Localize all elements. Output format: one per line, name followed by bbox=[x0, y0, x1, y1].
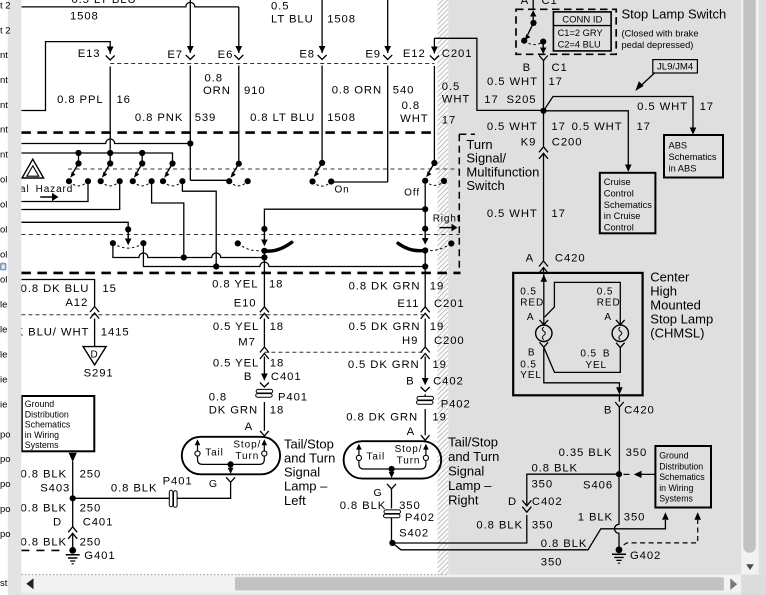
svg-text:18: 18 bbox=[270, 404, 284, 416]
cruise control box bbox=[600, 173, 656, 234]
svg-text:nt: nt bbox=[0, 125, 8, 136]
right cam dashed travel arc bbox=[428, 244, 452, 251]
grommet P402 right lamp feed bbox=[417, 396, 434, 404]
svg-text:in Wiring: in Wiring bbox=[25, 430, 59, 440]
svg-text:ol: ol bbox=[0, 200, 7, 211]
svg-text:and Turn: and Turn bbox=[284, 451, 335, 466]
arrow into cruise box bbox=[625, 165, 632, 172]
svg-text:E8: E8 bbox=[299, 49, 315, 61]
svg-text:E13: E13 bbox=[78, 48, 101, 60]
svg-text:G: G bbox=[374, 487, 383, 499]
svg-text:0.8 BLK: 0.8 BLK bbox=[541, 538, 588, 550]
wire E12 vertical bbox=[433, 38, 435, 163]
svg-text:A: A bbox=[245, 421, 253, 433]
svg-text:Lamp –: Lamp – bbox=[284, 479, 328, 494]
svg-text:250: 250 bbox=[80, 503, 102, 515]
wire Off-switch left contact down bbox=[424, 181, 426, 230]
node pole1 bus dot bbox=[75, 150, 81, 156]
wire E6 vertical bbox=[238, 7, 240, 164]
wire right lamp G to S402 bbox=[391, 489, 393, 543]
svg-text:P401: P401 bbox=[163, 475, 193, 487]
svg-text:17: 17 bbox=[551, 208, 565, 220]
wire E12 jog to S205 (0.5 WHT) bbox=[434, 38, 543, 110]
connector arrow+chevron B C401 bbox=[260, 374, 269, 388]
svg-text:Lamp –: Lamp – bbox=[448, 478, 492, 493]
svg-text:E10: E10 bbox=[234, 298, 257, 310]
switch pole4 bbox=[160, 160, 186, 185]
stop lamp switch contact dot B side bbox=[540, 39, 546, 45]
connector fork G right lamp bbox=[387, 484, 396, 489]
left cam dashed travel arc bbox=[238, 243, 263, 250]
svg-text:S406: S406 bbox=[583, 479, 613, 491]
right cam contact dot bbox=[422, 247, 428, 253]
wire right cam contact through bus2 to E11 bbox=[424, 251, 426, 436]
connector chevrons M7 at C200 bbox=[260, 347, 269, 359]
svg-text:C401: C401 bbox=[271, 371, 302, 383]
svg-text:C201: C201 bbox=[434, 298, 465, 310]
svg-text:0.8: 0.8 bbox=[205, 72, 223, 84]
right cam arrow bbox=[424, 230, 426, 239]
svg-text:540: 540 bbox=[393, 85, 415, 97]
switch pole1 bbox=[66, 160, 91, 185]
connector chevrons E6 at C201 bbox=[234, 46, 243, 60]
svg-text:Turn: Turn bbox=[235, 451, 259, 462]
svg-text:0.8 DK BLU: 0.8 DK BLU bbox=[21, 283, 90, 295]
stop lamp switch contact dot A side bbox=[521, 38, 527, 44]
svg-text:350: 350 bbox=[541, 556, 563, 568]
svg-text:0.8 YEL: 0.8 YEL bbox=[212, 279, 258, 291]
page-edge hatch strip bbox=[438, 0, 449, 575]
svg-text:t 2: t 2 bbox=[0, 1, 11, 12]
svg-text:350: 350 bbox=[532, 479, 554, 491]
svg-text:0.8 BLK: 0.8 BLK bbox=[476, 519, 523, 531]
CHMSL bottom exit arrow bbox=[616, 387, 623, 394]
CHMSL left bulb bottom chevron bbox=[540, 342, 549, 347]
svg-text:D: D bbox=[91, 350, 99, 361]
wire CHMSL feed inside box bbox=[543, 273, 545, 325]
svg-text:17: 17 bbox=[484, 94, 498, 106]
connector chevrons K9 at C200 bbox=[539, 147, 548, 159]
svg-text:po: po bbox=[0, 529, 11, 540]
connector fork A right lamp bbox=[421, 435, 430, 440]
dashed connector line C201 lower bbox=[21, 314, 425, 316]
wire left lamp G to P401 to S403 bbox=[73, 482, 231, 498]
svg-text:S205: S205 bbox=[507, 94, 537, 106]
diagram white page bbox=[21, 0, 437, 575]
grommet P401 left lamp feed bbox=[256, 389, 273, 397]
svg-text:Ground: Ground bbox=[659, 451, 688, 461]
svg-text:ie: ie bbox=[0, 375, 7, 386]
left tail/stop lamp body bbox=[182, 437, 280, 475]
svg-text:A: A bbox=[527, 312, 535, 323]
svg-text:YEL: YEL bbox=[520, 370, 542, 381]
wire bus1 bbox=[113, 243, 265, 257]
left lamp internal bus bbox=[198, 457, 265, 465]
svg-text:17: 17 bbox=[637, 121, 651, 133]
ground G401 bbox=[66, 547, 80, 564]
left cam alternate contact dot bbox=[235, 240, 241, 246]
svg-text:st: st bbox=[0, 578, 8, 589]
ground distribution box left bbox=[22, 396, 95, 451]
horizontal scrollbar right arrow bbox=[730, 578, 737, 590]
svg-text:0.5 WHT: 0.5 WHT bbox=[572, 121, 623, 133]
svg-text:539: 539 bbox=[195, 112, 217, 124]
left cam wiper thick arc bbox=[266, 242, 292, 251]
svg-text:(Closed with brake: (Closed with brake bbox=[622, 29, 699, 39]
svg-text:and Turn: and Turn bbox=[448, 449, 499, 464]
svg-text:pedal depressed): pedal depressed) bbox=[622, 40, 694, 50]
dashed switch internal line upper bbox=[68, 168, 460, 170]
CHMSL right bulb top chevron bbox=[616, 320, 625, 325]
wire pole4 right contact to bus2 bbox=[182, 181, 216, 266]
wire pole2 right contact to left edge bbox=[21, 181, 119, 209]
dashed connector line C201 top bbox=[110, 63, 434, 65]
svg-text:Schematics: Schematics bbox=[669, 152, 717, 162]
connector arrow+chevron B C402 bbox=[421, 378, 430, 392]
svg-text:Stop Lamp Switch: Stop Lamp Switch bbox=[622, 6, 727, 21]
svg-text:ABS: ABS bbox=[669, 140, 688, 150]
wire pole3 right contact to bus1 bbox=[152, 181, 184, 257]
svg-text:0.8 BLK: 0.8 BLK bbox=[111, 483, 157, 495]
svg-text:S402: S402 bbox=[399, 527, 429, 539]
wire Off branch to left cam bbox=[264, 209, 425, 230]
ground G402 bbox=[612, 546, 626, 563]
wire hazard bus lower to pole 4 bbox=[21, 153, 172, 164]
svg-text:Systems: Systems bbox=[659, 494, 693, 504]
switch E6 pole bbox=[226, 161, 251, 186]
connector fork B C1 bbox=[539, 56, 548, 61]
svg-text:0.5 WHT: 0.5 WHT bbox=[487, 76, 538, 88]
grommet P402 at S402 bbox=[384, 510, 401, 518]
stop lamp switch lever bbox=[528, 23, 534, 35]
left lamp common ground dot bbox=[228, 461, 234, 467]
stop lamp switch exit arrow bbox=[542, 42, 544, 48]
wire pole3 stub bbox=[141, 153, 143, 164]
stop lamp switch pivot dot bbox=[530, 20, 536, 26]
heavy dashed switch box top edge bbox=[21, 131, 437, 134]
node S406 splice dot bbox=[616, 471, 622, 477]
hazard direction arrow bbox=[40, 196, 52, 198]
wire S406 to C402 D to S402 bbox=[392, 474, 619, 543]
switch pole3 bbox=[130, 160, 155, 185]
wire E6-pole left contact to E7 bbox=[190, 179, 229, 182]
svg-text:B: B bbox=[528, 348, 536, 359]
left pane text fragments bbox=[0, 1, 11, 590]
left cam contact dot bbox=[261, 248, 267, 254]
svg-text:0.5: 0.5 bbox=[597, 287, 614, 298]
svg-text:0.8 ORN: 0.8 ORN bbox=[332, 85, 382, 97]
wire E9 vertical bbox=[387, 0, 389, 182]
left pane small colored icon bbox=[0, 263, 6, 271]
svg-text:Stop/: Stop/ bbox=[395, 444, 423, 455]
svg-text:po: po bbox=[0, 479, 11, 490]
wire bus2 bbox=[143, 243, 425, 266]
dashed switch internal line lower bbox=[21, 234, 459, 236]
node bus1 end junction bbox=[261, 254, 267, 260]
svg-text:0.8 BLK: 0.8 BLK bbox=[532, 462, 579, 474]
svg-text:0.35 BLK: 0.35 BLK bbox=[559, 447, 613, 459]
wire S403 down to G401 bbox=[72, 498, 74, 547]
svg-text:0.8 BLK: 0.8 BLK bbox=[21, 503, 68, 515]
svg-text:Tail: Tail bbox=[367, 452, 386, 463]
svg-text:Tail: Tail bbox=[205, 447, 224, 458]
svg-text:350: 350 bbox=[399, 500, 421, 512]
svg-text:B: B bbox=[523, 62, 531, 74]
svg-text:19: 19 bbox=[433, 359, 447, 371]
node right cam pivot bbox=[422, 226, 428, 232]
wire S205 down to K9 C200 and C420 bbox=[543, 111, 545, 273]
arrow from ground box down to S403 wire bbox=[69, 453, 77, 462]
vertical scrollbar thumb bbox=[743, 0, 755, 553]
connector chevrons E13 at C201 bbox=[106, 47, 115, 61]
svg-text:C2=4 BLU: C2=4 BLU bbox=[558, 39, 601, 49]
svg-text:E6: E6 bbox=[218, 49, 234, 61]
dashed connector line C200 lower bbox=[264, 351, 425, 353]
svg-text:1508: 1508 bbox=[70, 11, 99, 23]
right lamp common ground dot bbox=[389, 466, 395, 472]
vertical scrollbar down arrow bbox=[746, 564, 754, 570]
node hazard bus E7 junction bbox=[187, 140, 193, 146]
node bus2 end junction bbox=[422, 263, 428, 269]
svg-text:WHT: WHT bbox=[400, 113, 428, 125]
svg-text:in Wiring: in Wiring bbox=[659, 483, 693, 493]
svg-text:Signal: Signal bbox=[284, 465, 320, 480]
svg-text:nt: nt bbox=[0, 100, 8, 111]
svg-text:0.5 WHT: 0.5 WHT bbox=[487, 208, 538, 220]
svg-text:Off: Off bbox=[404, 188, 420, 199]
arrow dashed from G402 into ground box bottom bbox=[694, 512, 701, 520]
svg-text:Switch: Switch bbox=[466, 178, 504, 193]
svg-text:18: 18 bbox=[269, 279, 283, 291]
svg-text:19: 19 bbox=[430, 321, 444, 333]
svg-text:18: 18 bbox=[270, 357, 284, 369]
svg-text:B: B bbox=[406, 375, 414, 387]
connector chevrons E11 at C201 bbox=[421, 307, 430, 319]
svg-text:Hazard: Hazard bbox=[36, 184, 74, 195]
svg-text:JL9/JM4: JL9/JM4 bbox=[657, 62, 694, 73]
svg-text:ol: ol bbox=[0, 225, 7, 236]
CHMSL left bulb bbox=[536, 325, 552, 341]
svg-text:S403: S403 bbox=[40, 483, 70, 495]
svg-text:ie: ie bbox=[0, 400, 7, 411]
svg-text:LT BLU: LT BLU bbox=[271, 14, 314, 26]
connector fork G left lamp bbox=[226, 477, 235, 482]
wire S402 branch to ground distribution arrow bbox=[392, 520, 665, 550]
node left cam pivot bbox=[261, 226, 267, 232]
svg-text:D: D bbox=[508, 496, 517, 508]
svg-text:A: A bbox=[526, 252, 534, 264]
svg-text:K9: K9 bbox=[521, 137, 537, 149]
hazard warning triangle symbol bbox=[22, 159, 44, 178]
svg-text:C1: C1 bbox=[552, 62, 568, 74]
svg-text:19: 19 bbox=[430, 280, 444, 292]
right gray margin column bbox=[759, 0, 766, 595]
left lamp tail filament bbox=[195, 439, 201, 456]
svg-text:A: A bbox=[521, 0, 529, 7]
svg-text:le: le bbox=[0, 300, 7, 311]
svg-text:0.5 WHT: 0.5 WHT bbox=[637, 101, 688, 113]
node S205 splice dot bbox=[540, 108, 546, 114]
svg-text:On: On bbox=[335, 185, 350, 196]
wire E7 vertical bbox=[189, 0, 191, 180]
svg-text:ol: ol bbox=[0, 275, 7, 286]
node bus2 pole4 junction bbox=[213, 263, 219, 269]
svg-text:Distribution: Distribution bbox=[25, 409, 69, 419]
svg-text:C420: C420 bbox=[624, 404, 655, 416]
node pole3 bus dot bbox=[139, 150, 145, 156]
svg-text:(CHMSL): (CHMSL) bbox=[650, 326, 704, 341]
connector chevrons D at C401 bbox=[68, 527, 77, 539]
svg-text:P401: P401 bbox=[278, 391, 308, 403]
svg-text:E11: E11 bbox=[397, 298, 419, 310]
wire On-switch right contact to E9 bbox=[331, 181, 388, 184]
right lamp ground exit arrow bbox=[389, 469, 395, 478]
wire A12 from left edge bbox=[21, 280, 94, 347]
connector chevrons E12 at C201 bbox=[430, 47, 439, 61]
svg-text:High: High bbox=[650, 284, 677, 299]
JL9/JM4 annotation arrow bbox=[640, 73, 655, 87]
connector chevrons E7 at C201 bbox=[186, 46, 195, 60]
CONN ID table box bbox=[553, 12, 611, 51]
svg-text:17: 17 bbox=[551, 121, 565, 133]
svg-text:RED: RED bbox=[520, 297, 544, 308]
svg-text:YEL: YEL bbox=[585, 360, 607, 371]
wire pole1 stub bbox=[78, 153, 80, 164]
left cam arrow bbox=[263, 230, 265, 240]
svg-text:M7: M7 bbox=[238, 336, 256, 348]
svg-text:Distribution: Distribution bbox=[659, 461, 703, 471]
svg-text:350: 350 bbox=[624, 512, 646, 524]
svg-text:0.5 YEL: 0.5 YEL bbox=[213, 321, 259, 333]
right lamp internal bus bbox=[359, 461, 426, 469]
svg-text:po: po bbox=[0, 504, 11, 515]
connector fork B C420 bbox=[615, 402, 624, 407]
svg-text:le: le bbox=[0, 350, 7, 361]
CHMSL feed arrow up bbox=[541, 275, 548, 282]
stop lamp switch travel dashed arc bbox=[524, 41, 543, 45]
heavy dashed switch box bottom edge bbox=[21, 272, 460, 275]
svg-text:Schematics: Schematics bbox=[659, 472, 705, 482]
svg-text:Mounted: Mounted bbox=[650, 298, 701, 313]
svg-text:Systems: Systems bbox=[25, 440, 59, 450]
CHMSL right bulb bbox=[612, 325, 628, 341]
svg-text:C200: C200 bbox=[434, 335, 465, 347]
wire 0.5 LT BLU 1508 top bus to E6 bbox=[21, 2, 238, 7]
svg-text:250: 250 bbox=[80, 536, 102, 548]
svg-text:17: 17 bbox=[442, 114, 456, 126]
horizontal scrollbar thumb bbox=[235, 577, 724, 590]
svg-text:nt: nt bbox=[0, 75, 8, 86]
svg-text:19: 19 bbox=[432, 412, 446, 424]
svg-text:ORN: ORN bbox=[203, 85, 231, 97]
svg-text:0.8 LT BLU: 0.8 LT BLU bbox=[250, 112, 315, 124]
svg-text:Left: Left bbox=[284, 493, 306, 508]
svg-text:E9: E9 bbox=[365, 49, 381, 61]
grommet P401 at S403 bbox=[169, 490, 177, 507]
dashed multifunction switch right edge bbox=[459, 134, 475, 273]
wire CHMSL left B to bottom exit bbox=[544, 347, 620, 387]
wire S406 down to G402 bbox=[615, 474, 620, 547]
svg-text:0.8 DK GRN: 0.8 DK GRN bbox=[349, 280, 421, 292]
svg-text:B: B bbox=[604, 404, 612, 416]
svg-text:RED: RED bbox=[597, 297, 621, 308]
wire E13 feed from left edge bbox=[21, 42, 110, 164]
svg-text:B: B bbox=[244, 371, 252, 383]
svg-text:Center: Center bbox=[650, 270, 690, 285]
JL9/JM4 option box bbox=[653, 60, 698, 73]
svg-text:A: A bbox=[407, 426, 415, 438]
connector chevrons E9 at C201 bbox=[383, 46, 392, 60]
svg-text:0.5 DK GRN: 0.5 DK GRN bbox=[349, 321, 421, 333]
svg-text:Ground: Ground bbox=[25, 399, 54, 409]
svg-text:0.5: 0.5 bbox=[520, 360, 537, 371]
ABS schematics box bbox=[664, 135, 723, 178]
svg-text:G402: G402 bbox=[630, 550, 661, 562]
svg-text:Schematics: Schematics bbox=[25, 420, 71, 430]
connector chevrons H9 at C200 bbox=[421, 347, 430, 359]
svg-text:A: A bbox=[604, 312, 612, 323]
left lamp ground exit arrow bbox=[228, 464, 234, 474]
svg-text:250: 250 bbox=[80, 468, 102, 480]
svg-text:0.5: 0.5 bbox=[520, 287, 537, 298]
svg-text:D: D bbox=[53, 517, 62, 529]
connector chevrons D at C402 bbox=[522, 500, 531, 512]
wire hazard bus upper (hops E13) bbox=[21, 139, 190, 144]
svg-text:P402: P402 bbox=[441, 399, 471, 411]
left pane background bbox=[0, 0, 8, 595]
connector chevrons A12 at C201 bbox=[90, 307, 99, 319]
diagram bottom dotted border bbox=[21, 574, 448, 576]
wire S403 from ground box arrow bbox=[72, 462, 74, 499]
connector chevrons E8 at C201 bbox=[318, 46, 327, 60]
svg-text:G401: G401 bbox=[84, 550, 115, 562]
svg-text:H9: H9 bbox=[402, 335, 418, 347]
wire S205 to cruise branch bbox=[544, 111, 629, 165]
svg-text:15: 15 bbox=[102, 283, 116, 295]
switch On (E8 pole) bbox=[309, 160, 334, 186]
svg-text:C402: C402 bbox=[532, 496, 563, 508]
svg-text:C420: C420 bbox=[555, 252, 586, 264]
arrow into ABS box bbox=[690, 128, 697, 135]
svg-text:350: 350 bbox=[532, 519, 554, 531]
svg-text:CONN ID: CONN ID bbox=[562, 14, 602, 25]
switch pole2 bbox=[98, 160, 123, 185]
right cam wiper thick arc bbox=[398, 243, 425, 251]
svg-text:Turn: Turn bbox=[397, 456, 421, 467]
svg-text:1 BLK: 1 BLK bbox=[578, 512, 613, 524]
svg-text:in Cruise: in Cruise bbox=[604, 211, 641, 221]
left lamp stop/turn filament bbox=[262, 439, 268, 456]
svg-text:0.5 YEL: 0.5 YEL bbox=[213, 357, 259, 369]
svg-text:350: 350 bbox=[626, 447, 648, 459]
svg-text:po: po bbox=[0, 454, 11, 465]
wire hazard-cam feed from left edge bbox=[21, 222, 128, 231]
svg-text:ol: ol bbox=[0, 250, 7, 261]
wire pole1 right contact to left edge bbox=[21, 181, 88, 201]
CHMSL right bulb bottom chevron bbox=[616, 343, 625, 348]
svg-text:A12: A12 bbox=[65, 297, 88, 309]
wire S205 to JL9 ABS branch bbox=[544, 97, 694, 129]
svg-text:0.5 LT BLU: 0.5 LT BLU bbox=[71, 0, 136, 6]
switch hazard cam center bbox=[110, 226, 147, 248]
vertical scrollbar track bbox=[741, 0, 759, 575]
wire CHMSL left B to right B bbox=[544, 347, 621, 372]
svg-text:B: B bbox=[603, 349, 611, 360]
svg-text:al: al bbox=[20, 184, 30, 195]
svg-text:1508: 1508 bbox=[327, 112, 356, 124]
wire left cam contact through bus1 to E10 bbox=[263, 251, 265, 431]
svg-text:t 2: t 2 bbox=[0, 26, 11, 37]
